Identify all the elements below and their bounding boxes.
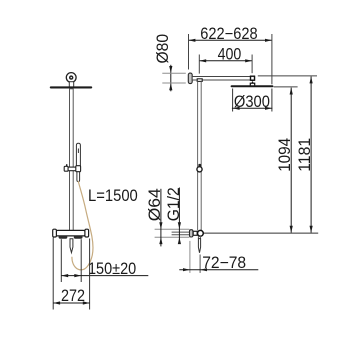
dimension 622-628 line: [189, 39, 272, 41]
svg-text:Ø80: Ø80: [154, 34, 172, 64]
arrow left of 272: [53, 301, 60, 304]
holder nub (side view): [198, 164, 201, 167]
G1/2 arrow up: [178, 237, 181, 244]
wall flange of arm: [188, 73, 192, 84]
dimension 150±20 extension line right: [80, 239, 82, 282]
supply nipple upper line: [172, 231, 190, 233]
shower head disc (side view): [232, 85, 273, 87]
arrow right of 150±20: [74, 274, 81, 277]
column (side view) right line: [200, 81, 202, 230]
extension line at head level (for 1094): [274, 86, 298, 88]
arrow right of 400: [245, 59, 252, 62]
Ø64 extension line top: [155, 228, 190, 230]
dimension 150±20 extension line left: [60, 239, 62, 282]
dimension Ø300 line: [232, 107, 272, 109]
hand shower handle: [77, 172, 80, 182]
dimension 272 line: [53, 302, 89, 304]
622-628 extension line left: [188, 34, 190, 70]
Ø64 arrow down: [159, 222, 162, 229]
shower hose: [72, 181, 93, 270]
svg-text:72−78: 72−78: [202, 254, 246, 272]
head connector lower block: [250, 83, 254, 86]
G1/2 dimension vertical line: [178, 188, 180, 244]
arrow left of Ø300: [233, 107, 240, 110]
dimension 1181 vertical line: [310, 77, 312, 233]
Ø80 arrow up: [169, 83, 172, 90]
svg-text:1181: 1181: [296, 138, 314, 172]
svg-text:G1/2: G1/2: [165, 187, 183, 221]
holder left knob: [64, 166, 68, 171]
hand shower head tube: [76, 143, 80, 166]
1094 arrow bottom: [290, 226, 293, 233]
622-628 extension line right: [271, 34, 273, 84]
valve stem: [193, 231, 197, 235]
arm to column collar: [197, 79, 202, 82]
svg-text:Ø300: Ø300: [234, 93, 270, 111]
holder pin: [66, 164, 67, 166]
400 extension line left: [198, 55, 200, 74]
supply nipple lower line: [172, 234, 190, 236]
shower head disc (edge-on): [51, 86, 91, 88]
holder clamp: [76, 166, 81, 172]
mixer body: [56, 230, 86, 236]
column (front view): [70, 89, 74, 231]
Ø80 dimension vertical line: [170, 65, 172, 92]
Ø80 extension line bottom: [162, 82, 186, 84]
arrow right of 272: [83, 301, 90, 304]
head connector upper block: [251, 76, 255, 80]
holder middle: [68, 167, 76, 171]
dimension 272 extension line left: [52, 238, 54, 310]
column (side view) left line: [197, 81, 199, 230]
Ø300 extension line right: [271, 89, 273, 112]
Ø300 extension line left: [232, 89, 234, 112]
valve to diverter neck: [197, 236, 199, 239]
dimension 400 line: [199, 60, 252, 62]
mixer left handle: [53, 229, 57, 237]
supply nut right: [74, 236, 83, 239]
mixer right handle: [85, 229, 89, 237]
holder ring (side view): [197, 167, 202, 172]
72-78 extension line left: [189, 241, 191, 273]
1181 arrow bottom: [310, 226, 313, 233]
dimension 150±20 line: [61, 275, 148, 277]
head connector ball (hourglass): [251, 80, 255, 83]
hand shower detail line: [77, 149, 79, 154]
supply nut left: [59, 236, 68, 239]
diverter knob below mixer: [70, 239, 73, 253]
svg-text:1094: 1094: [276, 138, 294, 172]
72-78 arrow right (pointing left): [200, 268, 207, 271]
arrow right of Ø300: [265, 107, 272, 110]
dimension 72-78 line: [179, 269, 258, 271]
svg-text:150±20: 150±20: [88, 260, 136, 278]
svg-text:L=1500: L=1500: [88, 187, 138, 205]
diverter knob (side view): [198, 239, 200, 253]
svg-text:272: 272: [61, 287, 85, 305]
Ø64 extension line bottom: [155, 236, 190, 238]
ball joint inner: [69, 75, 73, 79]
Ø80 arrow down: [169, 66, 172, 73]
1094 arrow top: [290, 88, 293, 95]
72-78 extension line right: [199, 255, 201, 273]
400 extension line right: [251, 55, 253, 74]
dimension 272 extension line right: [89, 239, 91, 310]
valve centerline to dimensions: [201, 232, 318, 234]
head connector stub: [69, 82, 73, 87]
72-78 arrow left (pointing right): [183, 268, 190, 271]
dimension 1094 vertical line: [290, 88, 292, 233]
arrow left of 150±20: [61, 274, 68, 277]
shower arm: [192, 77, 254, 81]
arrow left of 622-628: [189, 39, 196, 42]
valve escutcheon: [190, 230, 193, 237]
Ø80 extension line top: [162, 72, 186, 74]
Ø64 dimension vertical line: [160, 189, 162, 247]
valve ball joint: [198, 230, 204, 236]
arrow right of 622-628: [265, 39, 272, 42]
G1/2 arrow down: [178, 222, 181, 229]
arrow left of 400: [199, 59, 206, 62]
extension line at arm level (for 1181): [258, 75, 317, 77]
ball joint outer circle: [66, 73, 76, 83]
1181 arrow top: [310, 77, 313, 84]
Ø64 arrow up: [159, 237, 162, 244]
